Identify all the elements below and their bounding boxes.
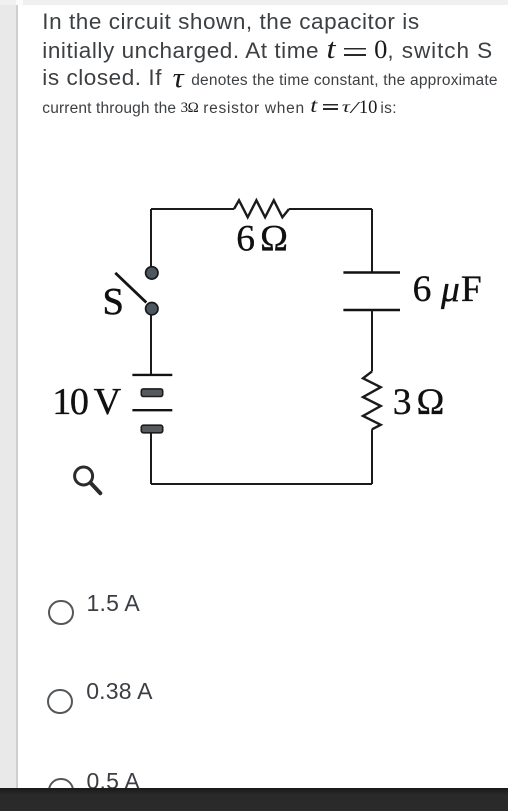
left gutter strip (0, 0, 18, 811)
battery V1 short plate 1 (141, 389, 162, 397)
option B label 0.38 A (86, 677, 152, 705)
svg-text:10 V: 10 V (52, 381, 121, 423)
svg-text:6 μF: 6 μF (413, 269, 483, 310)
switch S blade (115, 273, 146, 303)
circuit schematic (0, 0, 508, 560)
resistor 6ohm zigzag (234, 200, 289, 217)
wire resistor 3ohm to bottom-right corner (371, 429, 373, 484)
question line 3 (42, 64, 497, 95)
wire top-left segment (151, 208, 234, 210)
svg-text:S: S (103, 281, 124, 323)
wire capacitor to resistor 3ohm (371, 310, 373, 371)
wire battery to bottom-left corner (150, 433, 152, 484)
capacitor 6uF top plate (343, 271, 400, 273)
switch S bottom contact dot (146, 303, 158, 315)
wire top-right segment (289, 208, 372, 210)
resistor 3ohm zigzag (363, 371, 381, 429)
wire left rail to switch (150, 209, 152, 266)
svg-text:6 Ω: 6 Ω (236, 219, 287, 260)
battery V1 short plate 2 (141, 425, 162, 433)
wire top-right corner down to capacitor (371, 209, 373, 272)
battery V1 long plate 2 (132, 409, 172, 411)
option B radio (47, 689, 72, 714)
magnifier icon (75, 467, 101, 493)
switch S top contact dot (146, 267, 158, 279)
question line 1 (42, 8, 419, 36)
wire switch to battery (150, 315, 152, 375)
top grey bar (0, 0, 508, 5)
wire bottom side (151, 483, 372, 485)
capacitor 6uF bottom plate (343, 309, 400, 311)
question line 4 (42, 95, 397, 123)
option C label 0.5 A (87, 767, 140, 795)
option A label 1.5 A (87, 589, 140, 617)
bottom black bar (0, 788, 508, 811)
battery V1 long plate 1 (132, 374, 172, 376)
question line 2 (42, 37, 493, 65)
option A radio (48, 600, 73, 625)
svg-text:3 Ω: 3 Ω (393, 382, 444, 423)
option C radio (48, 778, 73, 803)
